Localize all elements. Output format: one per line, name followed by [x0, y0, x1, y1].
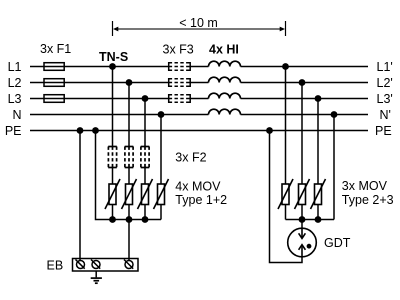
svg-text:Type 1+2: Type 1+2 [175, 193, 227, 207]
svg-text:3x F1: 3x F1 [40, 42, 71, 56]
svg-text:L2': L2' [377, 76, 393, 90]
svg-text:EB: EB [47, 258, 64, 272]
svg-text:Type 2+3: Type 2+3 [342, 193, 394, 207]
svg-text:4x HI: 4x HI [209, 43, 239, 57]
svg-text:< 10 m: < 10 m [179, 16, 218, 30]
svg-text:L3: L3 [8, 92, 22, 106]
svg-text:N: N [12, 108, 21, 122]
svg-text:GDT: GDT [324, 236, 351, 250]
svg-text:L3': L3' [377, 92, 393, 106]
svg-text:L2: L2 [8, 76, 22, 90]
svg-text:3x MOV: 3x MOV [342, 179, 388, 193]
svg-text:PE: PE [375, 124, 392, 138]
svg-text:PE: PE [5, 124, 22, 138]
svg-text:3x F2: 3x F2 [175, 150, 206, 164]
svg-text:L1: L1 [8, 60, 22, 74]
svg-text:3x F3: 3x F3 [163, 43, 194, 57]
svg-text:4x MOV: 4x MOV [175, 179, 221, 193]
svg-text:TN-S: TN-S [99, 50, 128, 64]
svg-text:L1': L1' [377, 60, 393, 74]
svg-text:N': N' [380, 108, 391, 122]
